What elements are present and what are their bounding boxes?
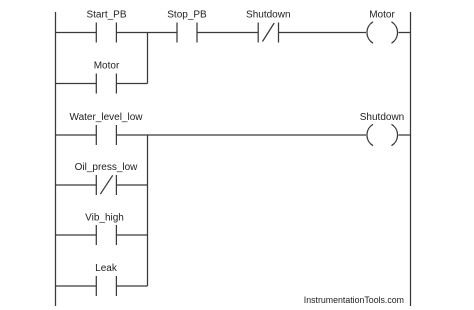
wire branch Oil_press_low to vertical xyxy=(116,184,147,186)
wire branch Vib_high to vertical xyxy=(116,234,147,236)
contact Start_PB (NO) xyxy=(96,23,116,43)
right power rail xyxy=(410,12,412,306)
wire branch left rail to Oil_press_low xyxy=(56,184,97,186)
svg-text:Shutdown: Shutdown xyxy=(246,10,290,21)
svg-text:Start_PB: Start_PB xyxy=(86,10,126,21)
contact Vib_high (NO) xyxy=(96,225,116,245)
wire rung1 Shutdown to Motor coil xyxy=(279,32,367,34)
wire rung1 Motor coil to right rail xyxy=(398,32,410,34)
coil Shutdown xyxy=(367,124,398,145)
wire branch vertical junction rung1 xyxy=(147,33,149,84)
wire rung2 Water_level_low to Shutdown coil xyxy=(116,134,366,136)
wire rung2 Shutdown coil to right rail xyxy=(398,134,410,136)
svg-text:Motor: Motor xyxy=(94,61,120,72)
svg-text:Leak: Leak xyxy=(95,263,118,274)
svg-text:Vib_high: Vib_high xyxy=(85,213,124,224)
svg-text:InstrumentationTools.com: InstrumentationTools.com xyxy=(304,295,404,305)
svg-text:Oil_press_low: Oil_press_low xyxy=(75,162,139,173)
wire rung2 left rail to Water_level_low xyxy=(56,134,97,136)
svg-text:Stop_PB: Stop_PB xyxy=(167,10,207,21)
contact Water_level_low (NO) xyxy=(96,125,116,145)
wire branch seal-in left rail to Motor contact xyxy=(56,83,97,85)
wire branch Leak to vertical xyxy=(116,285,147,287)
wire branch Motor contact to junction xyxy=(116,83,147,85)
contact Stop_PB (NO) xyxy=(177,23,197,43)
svg-text:Motor: Motor xyxy=(369,10,395,21)
svg-text:Water_level_low: Water_level_low xyxy=(70,112,144,123)
wire branch left rail to Vib_high xyxy=(56,234,97,236)
wire rung1 Start_PB to Stop_PB xyxy=(116,32,177,34)
svg-text:Shutdown: Shutdown xyxy=(360,112,404,123)
contact Shutdown (NC) xyxy=(258,23,278,43)
wire rung1 left rail to Start_PB xyxy=(56,32,97,34)
coil Motor xyxy=(367,22,398,43)
contact Oil_press_low (NC) xyxy=(96,175,116,195)
wire branch vertical rung2 xyxy=(147,135,149,286)
left power rail xyxy=(55,12,57,306)
contact Motor (NO seal-in) xyxy=(96,74,116,94)
wire branch left rail to Leak xyxy=(56,285,97,287)
wire rung1 Stop_PB to Shutdown xyxy=(197,32,258,34)
contact Leak (NO) xyxy=(96,276,116,296)
